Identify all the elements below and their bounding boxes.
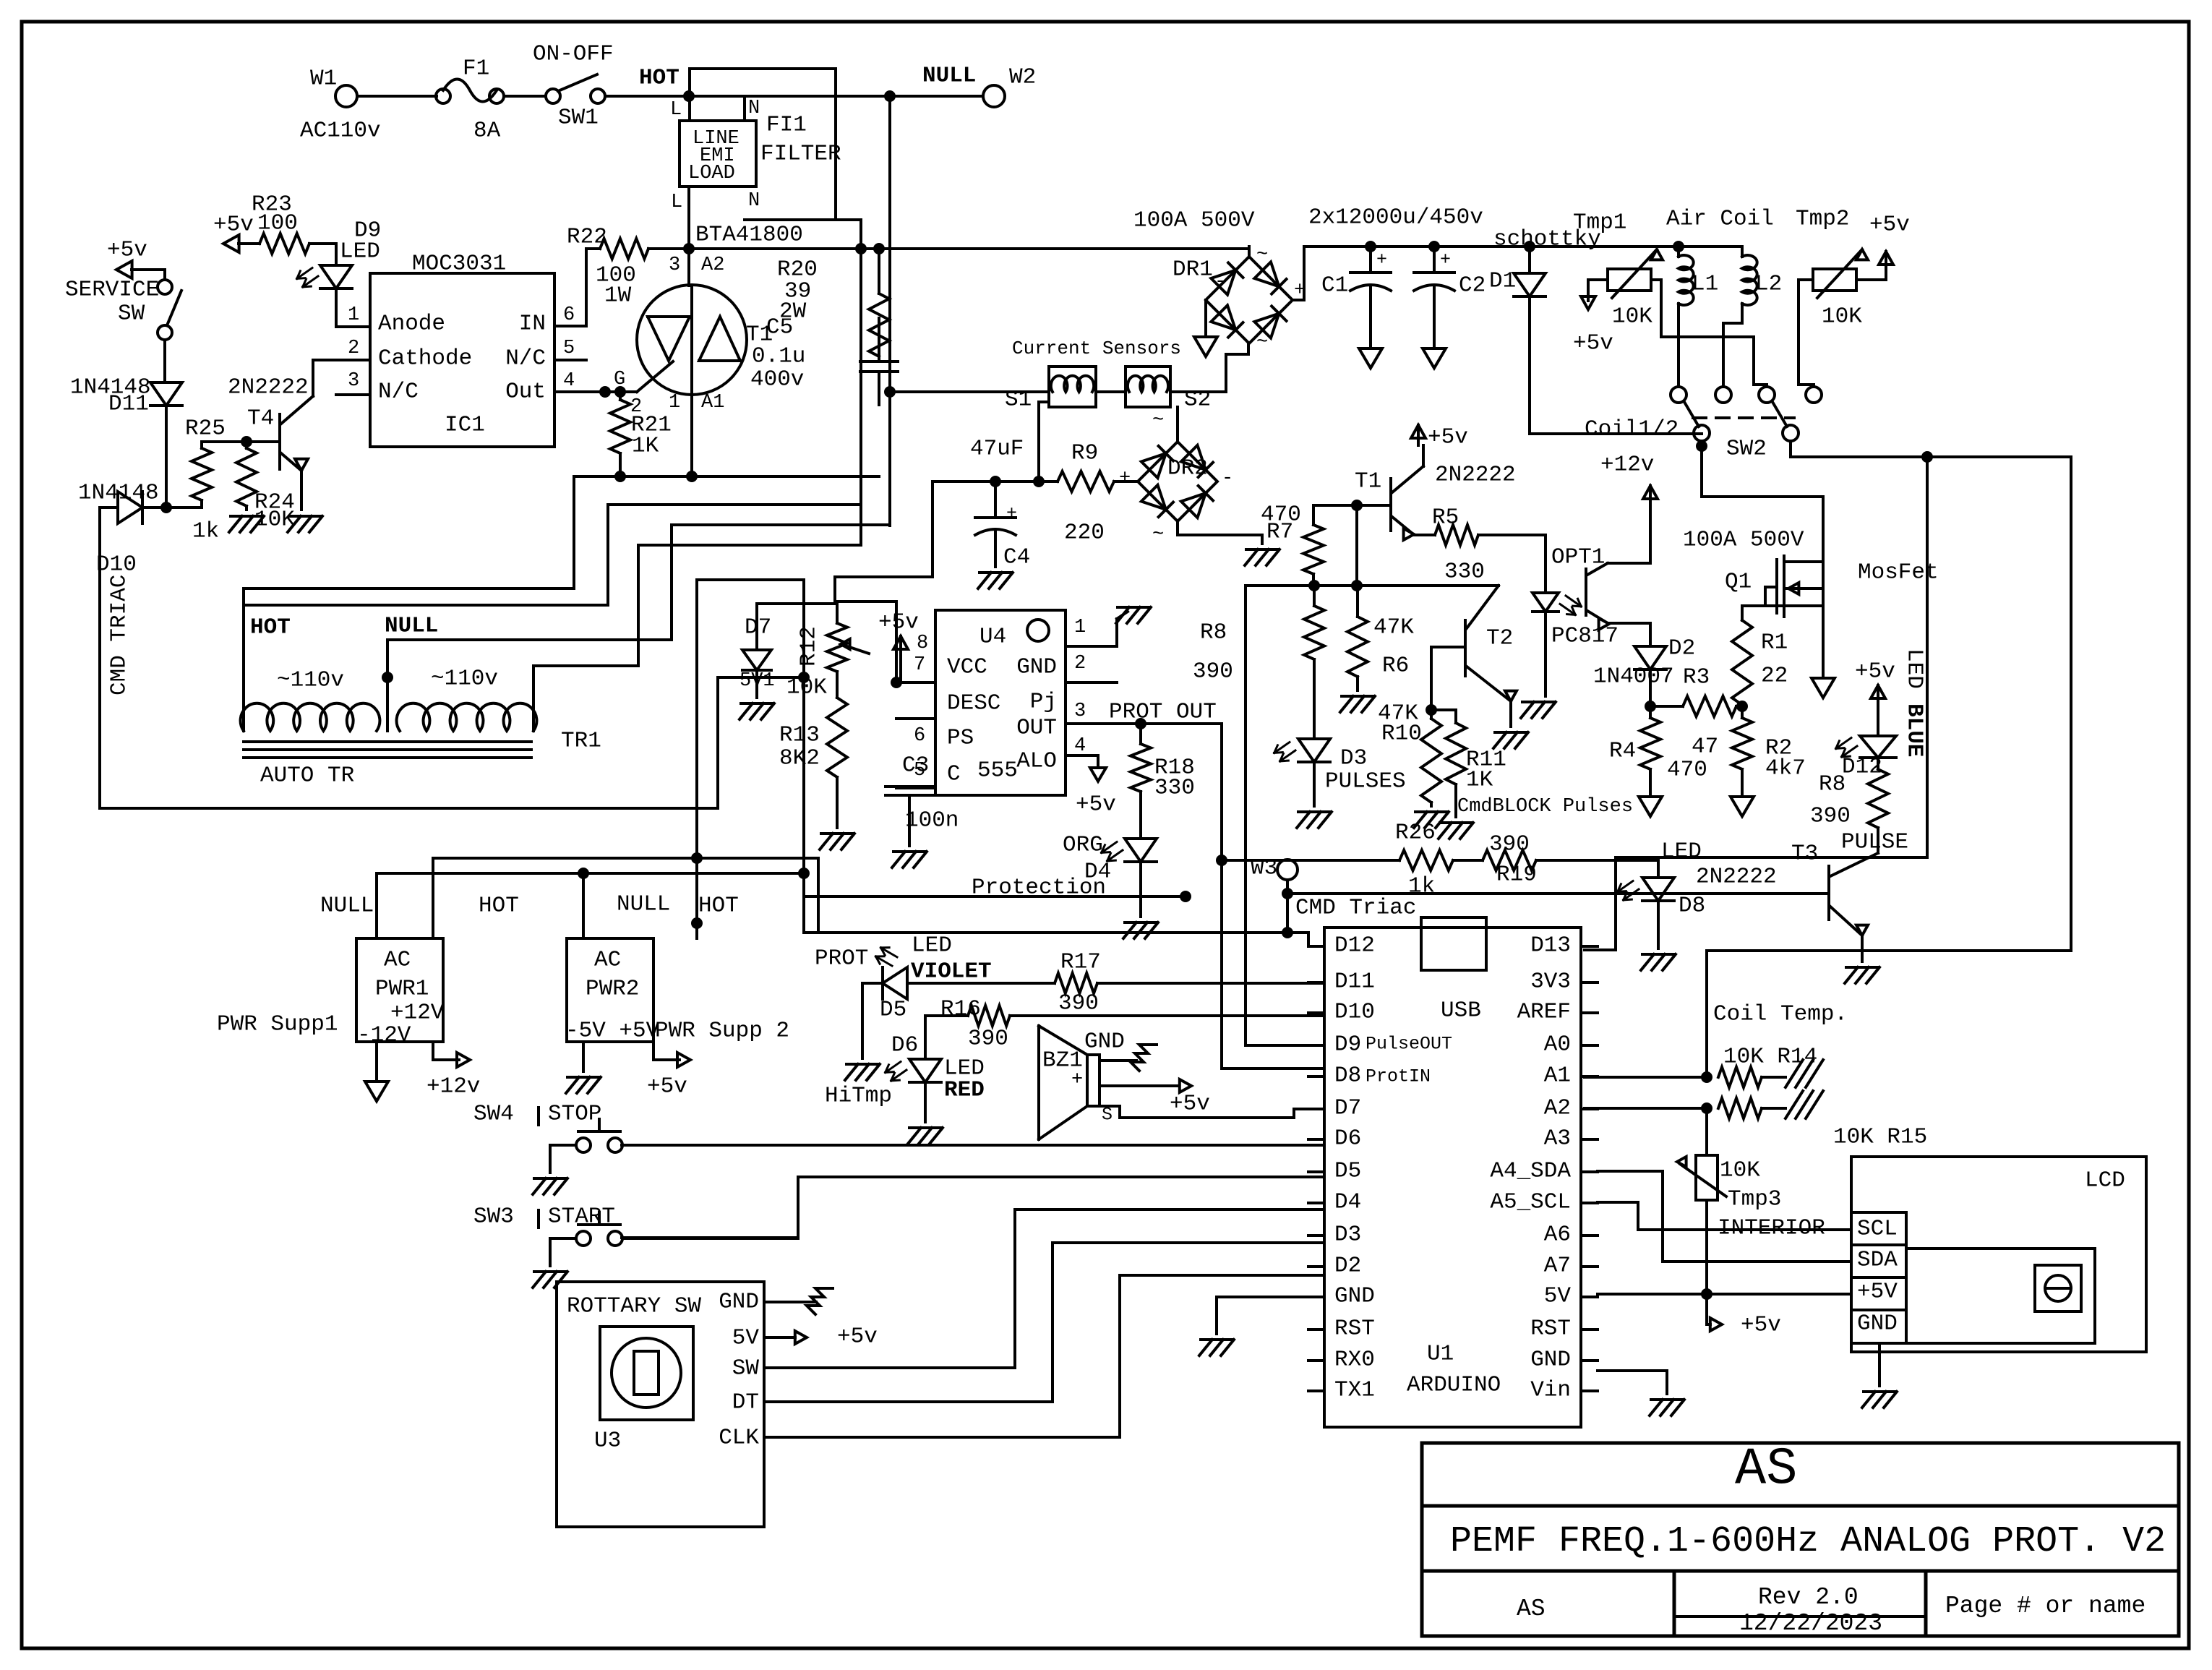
svg-text:2N2222: 2N2222 bbox=[1696, 864, 1777, 889]
svg-text:Rev 2.0: Rev 2.0 bbox=[1758, 1584, 1859, 1611]
svg-text:N/C: N/C bbox=[505, 346, 546, 371]
svg-text:U1: U1 bbox=[1427, 1341, 1454, 1366]
svg-text:C5: C5 bbox=[766, 314, 793, 340]
svg-text:+5v: +5v bbox=[1076, 792, 1116, 817]
svg-text:400v: 400v bbox=[750, 367, 804, 392]
svg-text:GND: GND bbox=[719, 1289, 759, 1314]
svg-text:Protection: Protection bbox=[972, 875, 1106, 900]
svg-text:10K R14: 10K R14 bbox=[1723, 1044, 1817, 1069]
svg-text:INTERIOR: INTERIOR bbox=[1718, 1215, 1825, 1241]
svg-text:1K: 1K bbox=[632, 433, 659, 458]
svg-text:A3: A3 bbox=[1544, 1126, 1571, 1151]
svg-text:10K R15: 10K R15 bbox=[1833, 1124, 1927, 1149]
svg-text:D8: D8 bbox=[1334, 1063, 1361, 1088]
svg-text:D9: D9 bbox=[1334, 1032, 1361, 1057]
svg-text:DR2: DR2 bbox=[1167, 455, 1208, 481]
svg-text:+5V: +5V bbox=[1857, 1279, 1898, 1304]
svg-text:R19: R19 bbox=[1496, 862, 1537, 887]
svg-text:Air Coil: Air Coil bbox=[1666, 206, 1774, 231]
svg-text:IN: IN bbox=[519, 311, 546, 336]
svg-text:PC817: PC817 bbox=[1551, 623, 1619, 648]
svg-text:3: 3 bbox=[669, 254, 680, 276]
svg-text:100n: 100n bbox=[905, 808, 959, 833]
svg-text:PROT OUT: PROT OUT bbox=[1109, 699, 1217, 724]
svg-text:LED: LED bbox=[912, 933, 952, 958]
svg-text:D13: D13 bbox=[1530, 933, 1571, 958]
svg-text:R10: R10 bbox=[1381, 721, 1422, 746]
svg-text:6: 6 bbox=[563, 304, 575, 326]
svg-text:8K2: 8K2 bbox=[779, 745, 820, 771]
svg-text:Cathode: Cathode bbox=[378, 346, 472, 371]
svg-text:D10: D10 bbox=[96, 552, 137, 577]
svg-text:~: ~ bbox=[1152, 524, 1164, 546]
svg-text:2: 2 bbox=[348, 338, 359, 359]
svg-text:3: 3 bbox=[348, 370, 359, 392]
svg-text:LOAD: LOAD bbox=[688, 163, 735, 184]
svg-text:PulseOUT: PulseOUT bbox=[1366, 1034, 1452, 1055]
svg-text:Out: Out bbox=[505, 379, 546, 404]
svg-text:Tmp1: Tmp1 bbox=[1573, 210, 1626, 235]
svg-text:AC: AC bbox=[594, 947, 621, 972]
svg-text:+: + bbox=[1440, 249, 1451, 270]
svg-text:330: 330 bbox=[1154, 775, 1195, 800]
svg-text:SW2: SW2 bbox=[1726, 436, 1767, 461]
svg-text:IC1: IC1 bbox=[445, 412, 485, 437]
svg-text:2N2222: 2N2222 bbox=[228, 374, 309, 400]
svg-text:C1: C1 bbox=[1321, 273, 1348, 298]
svg-text:+5v: +5v bbox=[1855, 659, 1895, 684]
svg-text:ProtIN: ProtIN bbox=[1366, 1066, 1431, 1087]
svg-text:L2: L2 bbox=[1755, 271, 1782, 296]
svg-text:T3: T3 bbox=[1791, 841, 1818, 866]
svg-text:D12: D12 bbox=[1842, 754, 1882, 779]
svg-text:PULSES: PULSES bbox=[1325, 768, 1406, 794]
svg-text:10K: 10K bbox=[1720, 1157, 1760, 1183]
svg-text:R7: R7 bbox=[1266, 519, 1293, 544]
svg-text:PWR Supp1: PWR Supp1 bbox=[217, 1011, 338, 1037]
svg-text:47uF: 47uF bbox=[970, 436, 1024, 461]
svg-text:PWR1: PWR1 bbox=[375, 976, 429, 1001]
svg-text:220: 220 bbox=[1064, 520, 1105, 545]
svg-text:Current Sensors: Current Sensors bbox=[1012, 338, 1181, 359]
svg-text:R17: R17 bbox=[1060, 949, 1101, 975]
svg-text:SW: SW bbox=[732, 1356, 760, 1381]
svg-text:D7: D7 bbox=[745, 615, 771, 640]
svg-text:-: - bbox=[1214, 271, 1226, 293]
svg-text:Vin: Vin bbox=[1530, 1377, 1571, 1403]
svg-text:OUT: OUT bbox=[1016, 715, 1057, 740]
svg-text:C3: C3 bbox=[902, 753, 929, 778]
svg-text:Page # or name: Page # or name bbox=[1945, 1593, 2145, 1619]
svg-text:GND: GND bbox=[1084, 1029, 1125, 1054]
svg-text:W1: W1 bbox=[310, 66, 337, 91]
svg-text:GND: GND bbox=[1857, 1311, 1898, 1336]
svg-text:D11: D11 bbox=[1334, 969, 1375, 994]
svg-text:BTA41800: BTA41800 bbox=[695, 222, 803, 247]
svg-text:RST: RST bbox=[1334, 1316, 1375, 1341]
svg-text:PS: PS bbox=[947, 725, 974, 750]
svg-text:4: 4 bbox=[1074, 735, 1086, 757]
svg-text:+12v: +12v bbox=[1600, 452, 1654, 477]
svg-text:10K: 10K bbox=[1612, 304, 1652, 329]
svg-text:C: C bbox=[947, 761, 961, 787]
svg-text:R2: R2 bbox=[1765, 735, 1792, 761]
svg-text:D2: D2 bbox=[1668, 635, 1695, 661]
svg-text:SW4: SW4 bbox=[473, 1101, 514, 1126]
svg-text:D5: D5 bbox=[880, 997, 906, 1022]
svg-text:~: ~ bbox=[1152, 410, 1164, 432]
svg-text:2x12000u/450v: 2x12000u/450v bbox=[1308, 205, 1483, 230]
svg-text:NULL: NULL bbox=[385, 613, 438, 638]
svg-text:AREF: AREF bbox=[1517, 999, 1571, 1024]
svg-text:R26: R26 bbox=[1395, 820, 1436, 845]
svg-text:+5v: +5v bbox=[837, 1324, 878, 1349]
svg-text:5: 5 bbox=[563, 338, 575, 359]
svg-text:SW1: SW1 bbox=[558, 105, 599, 130]
svg-text:TX1: TX1 bbox=[1334, 1377, 1375, 1403]
svg-text:ON-OFF: ON-OFF bbox=[533, 41, 614, 67]
svg-text:SDA: SDA bbox=[1857, 1247, 1898, 1272]
svg-text:A4_SDA: A4_SDA bbox=[1490, 1158, 1571, 1183]
svg-text:1N4007: 1N4007 bbox=[1593, 664, 1674, 689]
svg-text:10K: 10K bbox=[1822, 304, 1862, 329]
svg-text:L: L bbox=[671, 192, 682, 213]
svg-text:47K: 47K bbox=[1373, 615, 1414, 640]
svg-text:D5: D5 bbox=[1334, 1158, 1361, 1183]
svg-text:NULL: NULL bbox=[922, 63, 976, 88]
svg-text:VCC: VCC bbox=[947, 654, 987, 680]
svg-text:8A: 8A bbox=[473, 118, 501, 143]
svg-text:A2: A2 bbox=[1544, 1095, 1571, 1121]
svg-text:+5v: +5v bbox=[647, 1074, 687, 1099]
svg-text:330: 330 bbox=[1444, 559, 1485, 584]
svg-text:R25: R25 bbox=[185, 416, 226, 441]
svg-text:PWR Supp 2: PWR Supp 2 bbox=[655, 1018, 789, 1043]
svg-text:T2: T2 bbox=[1486, 625, 1513, 651]
svg-text:+: + bbox=[1376, 249, 1387, 270]
svg-text:12/22/2023: 12/22/2023 bbox=[1739, 1610, 1882, 1637]
svg-text:ROTTARY SW: ROTTARY SW bbox=[567, 1293, 701, 1319]
svg-text:A6: A6 bbox=[1544, 1222, 1571, 1247]
svg-text:D8: D8 bbox=[1679, 893, 1705, 918]
svg-text:A2: A2 bbox=[701, 254, 724, 276]
svg-text:SERVICE: SERVICE bbox=[65, 277, 159, 302]
svg-text:+12v: +12v bbox=[426, 1074, 480, 1099]
svg-text:LCD: LCD bbox=[2085, 1168, 2125, 1193]
svg-text:FI1: FI1 bbox=[766, 112, 807, 137]
svg-text:SCL: SCL bbox=[1857, 1216, 1898, 1241]
svg-text:C4: C4 bbox=[1003, 544, 1030, 570]
svg-text:-5V +5V: -5V +5V bbox=[565, 1018, 660, 1043]
svg-text:1k: 1k bbox=[192, 518, 219, 544]
svg-text:~: ~ bbox=[1256, 332, 1268, 354]
svg-text:D3: D3 bbox=[1340, 745, 1367, 771]
svg-text:0.1u: 0.1u bbox=[752, 343, 805, 369]
svg-text:FILTER: FILTER bbox=[760, 141, 841, 166]
svg-text:F1: F1 bbox=[463, 56, 489, 81]
svg-text:470: 470 bbox=[1667, 757, 1707, 782]
svg-text:D7: D7 bbox=[1334, 1095, 1361, 1121]
svg-text:D2: D2 bbox=[1334, 1253, 1361, 1278]
svg-text:MOC3031: MOC3031 bbox=[412, 251, 506, 276]
svg-text:RED: RED bbox=[944, 1077, 985, 1102]
svg-text:CMD TRIAC: CMD TRIAC bbox=[106, 575, 132, 695]
svg-text:+5v: +5v bbox=[107, 237, 147, 262]
svg-text:CMD Triac: CMD Triac bbox=[1295, 895, 1416, 920]
svg-text:SW: SW bbox=[118, 301, 145, 326]
svg-text:HOT: HOT bbox=[639, 65, 680, 90]
svg-text:DT: DT bbox=[732, 1389, 759, 1415]
svg-text:AUTO TR: AUTO TR bbox=[260, 763, 354, 788]
svg-text:R8: R8 bbox=[1200, 620, 1227, 645]
svg-text:Tmp2: Tmp2 bbox=[1796, 206, 1849, 231]
svg-text:W2: W2 bbox=[1009, 64, 1036, 90]
svg-text:390: 390 bbox=[1058, 990, 1099, 1016]
svg-text:N/C: N/C bbox=[378, 379, 419, 404]
svg-text:3V3: 3V3 bbox=[1530, 969, 1571, 994]
svg-text:USB: USB bbox=[1441, 998, 1481, 1023]
svg-text:PWR2: PWR2 bbox=[586, 976, 639, 1001]
svg-text:AC110v: AC110v bbox=[300, 118, 381, 143]
svg-text:Anode: Anode bbox=[378, 311, 445, 336]
svg-text:+5v: +5v bbox=[1869, 212, 1910, 237]
svg-text:8: 8 bbox=[917, 633, 928, 654]
svg-text:Pj: Pj bbox=[1030, 689, 1057, 714]
svg-text:+5v: +5v bbox=[1573, 330, 1613, 356]
svg-text:GND: GND bbox=[1334, 1283, 1375, 1309]
svg-text:N: N bbox=[748, 98, 760, 119]
svg-text:HOT: HOT bbox=[698, 893, 739, 918]
svg-text:390: 390 bbox=[1193, 659, 1233, 684]
svg-text:LED: LED bbox=[1902, 648, 1927, 689]
svg-text:D12: D12 bbox=[1334, 933, 1375, 958]
svg-text:A1: A1 bbox=[1544, 1063, 1571, 1088]
svg-text:HOT: HOT bbox=[479, 893, 519, 918]
svg-text:Coil1/2: Coil1/2 bbox=[1585, 416, 1679, 442]
svg-text:-12V: -12V bbox=[357, 1022, 411, 1048]
svg-text:MosFet: MosFet bbox=[1858, 560, 1939, 585]
svg-text:D11: D11 bbox=[108, 391, 149, 416]
svg-text:D10: D10 bbox=[1334, 999, 1375, 1024]
svg-text:LED: LED bbox=[1661, 839, 1702, 864]
svg-text:Q1: Q1 bbox=[1725, 569, 1752, 594]
svg-text:STOP: STOP bbox=[548, 1101, 601, 1126]
svg-text:+: + bbox=[1119, 468, 1131, 489]
svg-text:1: 1 bbox=[669, 392, 680, 414]
svg-text:A0: A0 bbox=[1544, 1032, 1571, 1057]
svg-text:D6: D6 bbox=[1334, 1126, 1361, 1151]
svg-text:PEMF FREQ.1-600Hz ANALOG PROT.: PEMF FREQ.1-600Hz ANALOG PROT. V2 bbox=[1450, 1521, 2166, 1562]
svg-text:DR1: DR1 bbox=[1173, 257, 1213, 282]
svg-text:5V: 5V bbox=[732, 1325, 760, 1350]
svg-text:+12V: +12V bbox=[390, 1000, 445, 1025]
svg-text:L1: L1 bbox=[1692, 271, 1718, 296]
svg-text:N: N bbox=[748, 190, 760, 212]
svg-text:HiTmp: HiTmp bbox=[825, 1083, 892, 1108]
svg-text:RST: RST bbox=[1530, 1316, 1571, 1341]
svg-text:PROT: PROT bbox=[815, 946, 868, 971]
svg-text:SW3: SW3 bbox=[473, 1204, 514, 1229]
svg-text:R13: R13 bbox=[779, 722, 820, 748]
svg-text:+5v: +5v bbox=[213, 212, 254, 237]
svg-text:+5v: +5v bbox=[878, 609, 919, 635]
svg-text:100A 500V: 100A 500V bbox=[1133, 207, 1255, 233]
svg-text:2N2222: 2N2222 bbox=[1435, 462, 1516, 487]
svg-text:LED: LED bbox=[340, 239, 380, 264]
svg-text:RX0: RX0 bbox=[1334, 1347, 1375, 1372]
svg-text:1: 1 bbox=[1074, 617, 1086, 638]
svg-text:U4: U4 bbox=[979, 624, 1006, 649]
svg-text:+5v: +5v bbox=[1170, 1091, 1210, 1116]
svg-text:D4: D4 bbox=[1334, 1189, 1361, 1215]
svg-text:2: 2 bbox=[1074, 653, 1086, 675]
svg-text:R1: R1 bbox=[1761, 630, 1788, 655]
svg-text:L: L bbox=[670, 99, 682, 121]
svg-text:NULL: NULL bbox=[617, 891, 670, 917]
svg-text:D3: D3 bbox=[1334, 1222, 1361, 1247]
svg-text:100A 500V: 100A 500V bbox=[1683, 527, 1804, 552]
svg-text:R8: R8 bbox=[1819, 771, 1846, 797]
svg-text:T1: T1 bbox=[1355, 468, 1381, 494]
svg-text:ORG: ORG bbox=[1063, 832, 1103, 857]
svg-text:A7: A7 bbox=[1544, 1253, 1571, 1278]
svg-text:A1: A1 bbox=[701, 392, 724, 414]
svg-text:~110v: ~110v bbox=[431, 666, 498, 691]
svg-text:GND: GND bbox=[1530, 1347, 1571, 1372]
svg-text:10K: 10K bbox=[786, 675, 827, 700]
svg-text:CLK: CLK bbox=[719, 1425, 759, 1450]
svg-text:AS: AS bbox=[1517, 1596, 1546, 1622]
svg-text:390: 390 bbox=[968, 1026, 1008, 1051]
svg-text:AC: AC bbox=[384, 947, 411, 972]
svg-text:5V1: 5V1 bbox=[740, 670, 775, 692]
svg-text:BLUE: BLUE bbox=[1902, 703, 1927, 757]
svg-text:T4: T4 bbox=[247, 406, 274, 431]
svg-text:W3: W3 bbox=[1251, 855, 1277, 881]
svg-text:5V: 5V bbox=[1544, 1283, 1572, 1309]
svg-text:390: 390 bbox=[1810, 803, 1851, 828]
svg-text:7: 7 bbox=[914, 654, 925, 676]
svg-text:D6: D6 bbox=[891, 1032, 918, 1058]
svg-text:Coil Temp.: Coil Temp. bbox=[1713, 1001, 1848, 1027]
svg-text:1K: 1K bbox=[1466, 767, 1493, 792]
svg-text:1: 1 bbox=[348, 304, 359, 326]
svg-text:R5: R5 bbox=[1432, 505, 1459, 530]
svg-text:~: ~ bbox=[1256, 244, 1268, 266]
svg-text:6: 6 bbox=[914, 725, 925, 747]
svg-text:C2: C2 bbox=[1459, 273, 1486, 298]
svg-text:OPT1: OPT1 bbox=[1551, 544, 1605, 570]
svg-text:R4: R4 bbox=[1609, 738, 1636, 763]
svg-text:Tmp3: Tmp3 bbox=[1728, 1186, 1781, 1212]
svg-text:R6: R6 bbox=[1382, 653, 1409, 678]
svg-text:+: + bbox=[1071, 1069, 1083, 1091]
svg-text:PULSE: PULSE bbox=[1841, 829, 1908, 855]
svg-text:HOT: HOT bbox=[250, 615, 291, 640]
svg-text:3: 3 bbox=[1074, 701, 1086, 722]
svg-text:555: 555 bbox=[977, 758, 1018, 783]
svg-text:AS: AS bbox=[1735, 1440, 1797, 1499]
svg-text:R3: R3 bbox=[1683, 664, 1710, 690]
svg-text:CmdBLOCK Pulses: CmdBLOCK Pulses bbox=[1457, 796, 1633, 818]
svg-text:DESC: DESC bbox=[947, 690, 1000, 716]
svg-text:4: 4 bbox=[563, 370, 575, 392]
svg-text:+5v: +5v bbox=[1741, 1312, 1781, 1337]
svg-text:47: 47 bbox=[1692, 734, 1718, 759]
svg-text:G: G bbox=[614, 369, 625, 390]
svg-text:+5v: +5v bbox=[1428, 424, 1468, 450]
svg-text:+: + bbox=[1006, 503, 1017, 524]
svg-text:22: 22 bbox=[1761, 663, 1788, 688]
svg-text:R9: R9 bbox=[1071, 440, 1098, 466]
svg-text:GND: GND bbox=[1016, 654, 1057, 680]
svg-text:-: - bbox=[1222, 468, 1233, 489]
svg-text:A5_SCL: A5_SCL bbox=[1490, 1189, 1571, 1215]
svg-text:ARDUINO: ARDUINO bbox=[1407, 1372, 1501, 1397]
svg-text:NULL: NULL bbox=[320, 893, 374, 918]
svg-text:U3: U3 bbox=[594, 1428, 621, 1453]
svg-text:VIOLET: VIOLET bbox=[911, 959, 992, 984]
svg-text:R12: R12 bbox=[796, 626, 821, 667]
svg-text:ALO: ALO bbox=[1016, 748, 1057, 774]
svg-text:~110v: ~110v bbox=[277, 667, 344, 693]
svg-text:TR1: TR1 bbox=[561, 728, 601, 753]
svg-text:1W: 1W bbox=[604, 283, 632, 308]
